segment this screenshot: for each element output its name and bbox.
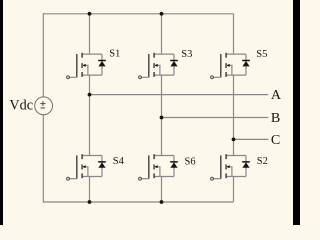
- node B junction: [160, 116, 164, 120]
- junction bottom bus / leg A: [88, 200, 92, 204]
- wire: negative DC bus (bottom rail): [43, 201, 233, 203]
- svg-text:B: B: [271, 110, 280, 126]
- wire: Vdc positive lead (left riser top): [42, 13, 44, 97]
- svg-text:S6: S6: [185, 156, 196, 167]
- svg-text:C: C: [271, 132, 280, 148]
- transistor S1 (N-MOSFET with body diode): [67, 53, 106, 79]
- svg-text:A: A: [271, 87, 282, 103]
- transistor S2 (N-MOSFET with body diode): [211, 154, 250, 180]
- svg-text:Vdc: Vdc: [9, 98, 33, 114]
- junction bottom bus / leg B: [160, 200, 164, 204]
- wire: Vdc negative lead (left riser bottom): [42, 115, 44, 203]
- left black border bar: [0, 0, 3, 225]
- wire: leg C lower source riser: [233, 177, 235, 203]
- wire: leg C upper drain riser: [233, 14, 235, 54]
- junction top bus / leg A: [88, 12, 92, 16]
- wire: leg B upper drain riser: [161, 14, 163, 54]
- right black border bar: [293, 0, 300, 225]
- transistor S4 (N-MOSFET with body diode): [67, 154, 106, 180]
- transistor S3 (N-MOSFET with body diode): [139, 53, 178, 79]
- source Vdc (DC voltage source circle): [35, 97, 53, 115]
- svg-text:S2: S2: [257, 156, 268, 167]
- svg-text:S4: S4: [113, 156, 125, 167]
- wire: leg A lower source riser: [89, 177, 91, 203]
- wire: leg A upper drain riser: [89, 14, 91, 54]
- junction top bus / leg B: [160, 12, 164, 16]
- node C junction: [232, 138, 236, 142]
- svg-text:S5: S5: [256, 49, 267, 60]
- wire: leg B phase midpoint riser: [161, 75, 163, 155]
- wire: positive DC bus (top rail): [43, 13, 233, 15]
- svg-text:S3: S3: [181, 49, 192, 60]
- transistor S6 (N-MOSFET with body diode): [139, 154, 178, 180]
- node A junction: [88, 93, 92, 97]
- svg-text:S1: S1: [109, 49, 120, 60]
- wire: phase A output: [90, 94, 269, 96]
- wire: phase B output: [162, 117, 269, 119]
- wire: leg A phase midpoint riser: [89, 75, 91, 155]
- wire: phase C output: [234, 138, 269, 140]
- wire: leg B lower source riser: [161, 177, 163, 203]
- wire: leg C phase midpoint riser: [233, 75, 235, 155]
- transistor S5 (N-MOSFET with body diode): [211, 53, 250, 79]
